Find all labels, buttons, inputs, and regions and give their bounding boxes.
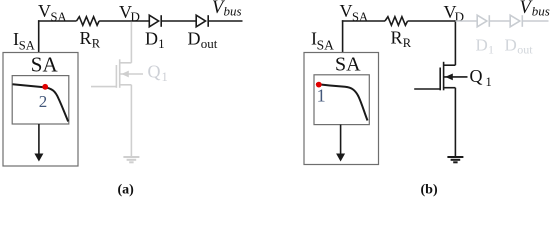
svg-text:D: D bbox=[145, 29, 158, 49]
svg-text:1: 1 bbox=[486, 75, 492, 89]
wire gray source drop (a) bbox=[130, 85, 132, 157]
svg-text:D: D bbox=[476, 36, 488, 55]
caption (a) bbox=[118, 183, 135, 198]
transistor Q1 label (b) bbox=[470, 66, 492, 89]
IV-curve (a) bbox=[13, 84, 69, 121]
svg-text:Q: Q bbox=[148, 62, 161, 82]
wire top rail left segment (b) bbox=[342, 20, 385, 22]
svg-text:SA: SA bbox=[31, 53, 59, 77]
svg-text:R: R bbox=[403, 36, 412, 50]
svg-text:R: R bbox=[80, 28, 92, 48]
IV-curve inner box (a) bbox=[12, 76, 69, 124]
solar array SA box (a) bbox=[3, 53, 78, 167]
svg-text:1: 1 bbox=[162, 70, 168, 84]
diode D1 label inactive (b) bbox=[476, 36, 495, 57]
wire top rail left segment (a) bbox=[38, 20, 77, 22]
node VD label (a) bbox=[119, 2, 140, 24]
wire gray rail to D1 (b) bbox=[455, 20, 477, 22]
node Vbus label (a) bbox=[212, 0, 242, 18]
resistor RR (b) bbox=[385, 17, 408, 26]
svg-text:out: out bbox=[517, 43, 533, 57]
svg-text:(b): (b) bbox=[421, 183, 438, 198]
diode D1 inactive (b) bbox=[477, 15, 489, 27]
caption (b) bbox=[421, 183, 438, 198]
wire rail resistor to VD corner (b) bbox=[408, 20, 456, 22]
wire VSA vertical (a) bbox=[38, 20, 40, 52]
transistor Q1 label inactive (a) bbox=[148, 62, 168, 85]
diode Dout (a) bbox=[196, 15, 208, 27]
svg-text:D: D bbox=[505, 36, 517, 55]
node Vbus label (b) bbox=[520, 0, 550, 18]
svg-text:D: D bbox=[131, 9, 140, 24]
svg-text:V: V bbox=[340, 1, 353, 21]
svg-text:SA: SA bbox=[51, 10, 67, 24]
svg-text:SA: SA bbox=[335, 54, 361, 76]
wire gray drain drop from VD node (a) bbox=[130, 22, 132, 63]
wire drain drop (b) bbox=[454, 20, 456, 65]
operating point 2 marker (a) bbox=[42, 84, 48, 90]
wire rail to Vbus (a) bbox=[208, 20, 242, 22]
wire rail resistor to D1 (a) bbox=[99, 20, 149, 22]
svg-text:SA: SA bbox=[317, 37, 335, 52]
operating point 1 marker (b) bbox=[316, 82, 322, 88]
IV-curve (b) bbox=[316, 84, 368, 121]
wire rail D1 to Dout (a) bbox=[161, 20, 196, 22]
diode Dout label inactive (b) bbox=[505, 36, 534, 57]
wire VSA vertical (b) bbox=[342, 20, 344, 52]
svg-text:V: V bbox=[38, 1, 51, 21]
svg-text:1: 1 bbox=[488, 43, 494, 57]
svg-text:D: D bbox=[188, 29, 201, 49]
SA label (b) bbox=[335, 54, 361, 76]
transistor Q1 active (b) bbox=[414, 62, 467, 91]
node ISA label (a) bbox=[13, 29, 35, 53]
svg-text:bus: bus bbox=[532, 3, 550, 18]
svg-text:(a): (a) bbox=[118, 183, 135, 198]
current source arrow inside SA (a) bbox=[34, 124, 43, 162]
resistor RR (a) bbox=[77, 17, 100, 26]
resistor RR value label (b) bbox=[391, 28, 412, 51]
solar array SA box (b) bbox=[304, 53, 379, 165]
svg-text:SA: SA bbox=[352, 10, 368, 24]
diode Dout inactive (b) bbox=[510, 15, 522, 27]
node VSA label (b) bbox=[340, 1, 368, 24]
wire source drop (b) bbox=[454, 88, 456, 157]
ground (b) bbox=[447, 157, 463, 162]
node VSA label (a) bbox=[38, 1, 66, 24]
SA label (a) bbox=[31, 53, 59, 77]
transistor Q1 inactive (a) bbox=[91, 59, 143, 88]
svg-text:bus: bus bbox=[224, 3, 242, 18]
svg-text:out: out bbox=[201, 36, 218, 51]
svg-text:1: 1 bbox=[158, 37, 164, 51]
ground gray (a) bbox=[123, 157, 139, 162]
resistor RR value label (a) bbox=[80, 28, 101, 51]
node ISA label (b) bbox=[311, 29, 334, 53]
svg-text:R: R bbox=[92, 37, 101, 51]
wire gray rail to Vbus (b) bbox=[522, 20, 548, 22]
svg-text:2: 2 bbox=[39, 92, 48, 111]
svg-text:SA: SA bbox=[19, 39, 35, 53]
IV-curve inner box (b) bbox=[314, 75, 369, 125]
diode D1 (a) bbox=[149, 15, 161, 27]
wire gray D1 to Dout (b) bbox=[489, 20, 510, 22]
node VD label (b) bbox=[444, 2, 464, 24]
diode Dout label (a) bbox=[188, 29, 218, 52]
operating point 1 label (b) bbox=[317, 86, 326, 106]
operating point 2 label (a) bbox=[39, 92, 48, 111]
svg-text:R: R bbox=[391, 28, 403, 48]
svg-text:1: 1 bbox=[317, 86, 326, 106]
current source arrow inside SA (b) bbox=[336, 125, 345, 162]
diode D1 label (a) bbox=[145, 29, 164, 52]
svg-text:Q: Q bbox=[470, 66, 483, 86]
